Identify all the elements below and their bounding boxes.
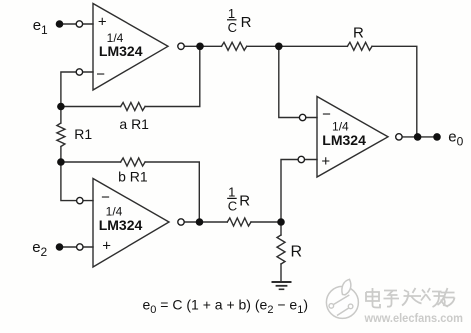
junction dot U1 output [196,43,204,51]
wire node A to R feedback resistor [279,45,348,47]
svg-text:LM324: LM324 [99,43,143,59]
resistor 1/C R (top) [222,42,247,50]
wire a R1 right segment up to U1 output node [145,46,200,106]
svg-text:e0: e0 [448,128,463,148]
wire e1 input to U1 + [63,23,93,25]
output circle U1 [178,43,184,49]
svg-text:LM324: LM324 [99,217,143,233]
svg-text:a R1: a R1 [119,116,149,132]
wire 1/CR bottom to node B [251,221,281,223]
ground [273,281,291,283]
svg-text:LM324: LM324 [322,132,366,148]
elecfans watermark logo circle [326,279,358,318]
resistor R (to ground) [277,235,285,264]
op-amp U2 LM324 triangle [93,179,169,268]
terminal dot e0 [433,133,441,141]
input circle U1 - [76,69,82,75]
svg-text:1: 1 [228,184,235,199]
wire U1 - input to left [61,72,93,107]
watermark text dianzi fashaoyou [366,288,455,308]
resistor b R1 [121,158,145,166]
wire R1 node down to U2 - input [61,162,93,201]
svg-text:R: R [291,243,303,260]
wire 1/CR to node A [247,45,279,47]
op-amp U3 LM324 triangle [317,97,388,178]
input circle U2 + [77,244,83,250]
wire U1 output to 1/CR resistor [185,45,222,47]
wire U2 output to 1/CR bottom resistor [185,221,228,223]
svg-text:R: R [239,192,250,209]
junction dot node A [275,43,283,51]
wire e2 input to U2 + [63,246,93,248]
svg-text:+: + [102,238,111,255]
svg-text:b R1: b R1 [118,169,148,185]
junction dot R1 top [57,103,65,111]
resistor R1 (vertical) [57,107,65,163]
resistor a R1 [121,103,145,111]
svg-text:−: − [101,189,110,206]
svg-text:R: R [353,25,364,42]
svg-text:e2: e2 [32,239,47,259]
input circle U1 + [76,21,82,27]
wire b R1 left segment [61,161,121,163]
svg-text:www.elecfans.com: www.elecfans.com [364,311,463,325]
svg-text:1: 1 [228,6,235,21]
wire node B down to grounding resistor R [280,222,282,235]
wire b R1 right segment down to U2 output node [145,162,199,222]
resistor 1/C R (bottom) [227,218,251,226]
wire a R1 left segment [61,106,121,108]
svg-text:e0 = C (1 + a + b) (e2 − e1): e0 = C (1 + a + b) (e2 − e1) [143,297,308,317]
wire node B up to U3 + input [281,160,317,223]
svg-text:+: + [321,153,330,170]
svg-text:C: C [228,20,237,35]
output circle U2 [178,219,184,225]
svg-text:−: − [96,66,105,83]
junction dot U3 output [414,133,422,141]
junction dot node B [277,218,285,226]
wire R feedback down to U3 output node [372,46,417,137]
wire R to ground [280,264,282,282]
resistor R (feedback, top right) [347,42,372,50]
svg-text:R1: R1 [74,126,92,142]
svg-text:C: C [228,199,237,214]
input circle U3 + [298,156,304,162]
svg-text:+: + [98,13,107,30]
output circle U3 [396,134,402,140]
input circle U3 - [299,114,305,120]
svg-text:R: R [241,14,252,31]
junction dot U2 output [196,218,204,226]
wire U3 output to e0 [402,136,437,138]
terminal dot e1 [56,20,64,28]
junction dot R1 bottom [57,158,65,166]
svg-text:e1: e1 [33,17,48,37]
svg-text:−: − [322,106,331,123]
wire node A down to U3 - input [279,46,317,117]
op-amp U1 LM324 triangle [93,4,168,91]
input circle U2 - [77,197,83,203]
terminal dot e2 [56,243,64,251]
